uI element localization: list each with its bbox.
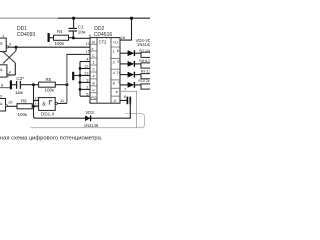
resistor R5 <box>39 82 56 87</box>
svg-text:13: 13 <box>84 71 89 76</box>
wire DD1.3 out to R6 <box>8 105 17 107</box>
svg-text:R10 2к: R10 2к <box>138 79 150 83</box>
svg-text:C: C <box>92 53 95 58</box>
wire to DD1.4 pin 12 <box>34 100 39 102</box>
svg-text:C3*: C3* <box>16 76 24 81</box>
wire cross diagonal B <box>3 52 15 63</box>
svg-text:10н: 10н <box>78 29 86 34</box>
svg-text:1мк: 1мк <box>15 90 24 95</box>
svg-text:100к: 100к <box>45 88 55 93</box>
svg-text:R4: R4 <box>57 29 63 34</box>
wire pin 16 to rail <box>120 18 132 40</box>
node junction C3/R5 <box>32 83 35 86</box>
node junction DD1.1 out <box>15 46 18 49</box>
wire R4 to junction <box>69 37 74 39</box>
svg-text:-U: -U <box>113 99 117 103</box>
svg-text:&: & <box>0 41 3 46</box>
svg-text:&: & <box>0 101 3 106</box>
svg-text:R9 3,9к: R9 3,9к <box>141 69 150 73</box>
node junction R5/clock <box>65 83 68 86</box>
wire clock to DD2 pin 15 <box>67 53 90 56</box>
svg-text:R: R <box>92 39 95 44</box>
wire DD1.2 out up <box>9 74 15 76</box>
svg-text:Принципиальная схема цифрового: Принципиальная схема цифрового потенциом… <box>0 135 103 141</box>
node junction R6/pin13 <box>32 105 35 108</box>
DD2 data input tie line <box>79 62 81 97</box>
wire R5 to vertical <box>55 84 67 86</box>
resistor R9 <box>141 74 153 79</box>
svg-text:R7 12к: R7 12к <box>139 49 150 53</box>
resistor R6 <box>17 104 32 109</box>
wire +U top rail (gray, full width) <box>0 17 150 19</box>
capacitor plates at -U <box>126 97 128 105</box>
wire cross diagonal A <box>3 51 16 64</box>
wire pin 8 (-U) to capacitor <box>120 99 127 101</box>
resistor R8 <box>141 63 153 68</box>
node junction C1 to rail <box>72 17 75 20</box>
wire C1 top stub <box>73 18 75 28</box>
svg-text:PO: PO <box>91 96 96 100</box>
svg-text:VD3: VD3 <box>85 110 94 115</box>
svg-text:10: 10 <box>8 100 13 105</box>
diode VD3 <box>85 116 90 122</box>
svg-text:CD4516: CD4516 <box>94 32 113 38</box>
wire clock vertical <box>66 54 68 103</box>
svg-text:R5: R5 <box>46 77 52 82</box>
wire vertical to DD1.2 out <box>14 63 16 75</box>
chip right column cell lines <box>111 47 120 96</box>
wire DD1.4 out to clock vertical <box>58 102 67 104</box>
svg-text:8: 8 <box>124 95 126 99</box>
op-amp gate DD1.2 (cropped at left) <box>0 65 7 77</box>
op-amp gate DD1.3 (cropped at left) <box>0 99 6 112</box>
svg-text:DD1.4: DD1.4 <box>41 112 54 117</box>
resistor R7 <box>141 52 153 57</box>
wire ground to C3 <box>12 84 16 86</box>
svg-text:9: 9 <box>0 95 2 99</box>
svg-text:V: V <box>92 88 95 93</box>
wire junction to DD2 pin 9 <box>73 37 90 39</box>
ground bar left of R4 <box>47 33 49 42</box>
svg-text:12: 12 <box>84 64 89 69</box>
svg-text:DD1: DD1 <box>17 26 27 32</box>
diode VD5 row <box>120 63 128 65</box>
svg-text:1N4148: 1N4148 <box>84 123 99 128</box>
svg-text:P: P <box>116 90 119 95</box>
svg-text:R8 8,2к: R8 8,2к <box>139 59 150 63</box>
wire capacitor to bottom wire <box>129 100 131 118</box>
svg-text:100к: 100к <box>55 41 65 46</box>
wire junction to R5 <box>34 84 39 86</box>
diode VD7 row <box>120 84 128 86</box>
ground bar left of C3 <box>10 80 12 89</box>
wire junction down <box>15 47 17 51</box>
wire bottom VD3 line <box>36 117 131 119</box>
svg-text:&: & <box>0 67 3 72</box>
wire C3 junction vertical down <box>34 85 36 119</box>
node junction R4/C1 <box>72 36 75 39</box>
svg-text:+U: +U <box>113 39 118 44</box>
wire ground to R4 <box>49 37 54 39</box>
chip left column cell lines <box>90 44 97 99</box>
capacitor C3* <box>16 81 18 89</box>
wire +U rail dark segment right <box>58 17 150 19</box>
diode VD6 row <box>120 74 128 76</box>
ground bar for tie line <box>72 72 74 80</box>
svg-text:14: 14 <box>117 69 122 74</box>
wire R6 to DD1.4 pin13 <box>32 105 38 107</box>
ghost rounded frame path <box>31 114 145 128</box>
wire C1 bottom stub <box>72 31 74 38</box>
svg-text:1N4148: 1N4148 <box>137 42 150 47</box>
op-amp gate DD1.4 <box>39 98 56 111</box>
svg-text:CT2: CT2 <box>99 40 108 45</box>
node dots on tie line <box>79 67 82 70</box>
wire pin 7 ghost path <box>120 91 137 127</box>
resistor R4 <box>54 35 69 40</box>
wire DD1.1 out to DD2 pin 10 <box>9 46 90 48</box>
svg-text:R6: R6 <box>21 98 27 103</box>
svg-text:100к: 100к <box>18 112 28 117</box>
diode VD4 row <box>120 52 128 54</box>
wire ground bar to tie line <box>74 75 80 77</box>
svg-text:CD4093: CD4093 <box>17 32 36 38</box>
chip DD2 body <box>90 38 120 104</box>
svg-text:16: 16 <box>121 35 126 40</box>
wire C3 to junction <box>21 84 34 86</box>
node junction pin16/rail <box>130 17 133 20</box>
resistor R10 <box>141 84 153 89</box>
op-amp gate DD1.1 (cropped at left) <box>0 38 6 52</box>
capacitor C1 <box>69 27 78 29</box>
